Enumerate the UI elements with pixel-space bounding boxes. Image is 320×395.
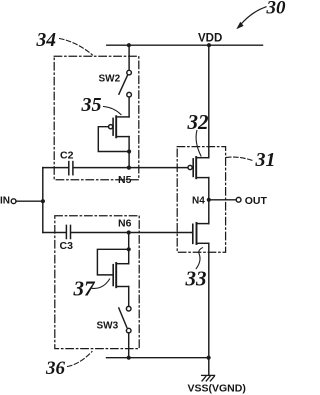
OUT terminal (236, 197, 241, 202)
wire N6 to transistor 37 drain (128, 233, 130, 264)
svg-text:VDD: VDD (198, 33, 222, 45)
svg-text:30: 30 (266, 0, 287, 19)
svg-text:33: 33 (185, 266, 207, 290)
wire SW2 to transistor 35 drain (128, 97, 130, 117)
wire C3 to N6 and gate of 33 (71, 232, 192, 234)
svg-text:31: 31 (255, 149, 276, 171)
ground symbol (202, 375, 215, 381)
power rail VDD wire (107, 44, 263, 46)
svg-text:N6: N6 (118, 218, 132, 230)
switch SW2 (119, 70, 132, 97)
leader line to 34 (60, 39, 93, 56)
box 34 dash-dot (54, 56, 139, 179)
node N6 junction dot (127, 230, 131, 234)
junction dot: gate tie of 37 (127, 247, 131, 251)
wire VDD rail to SW2 (128, 45, 130, 70)
node N5 junction dot (127, 166, 131, 170)
wire 32 drain to N4 (208, 178, 210, 200)
transistor 35 (109, 116, 130, 137)
leader line to 31 (227, 157, 254, 161)
box 31 dash-dot (177, 147, 225, 253)
junction dot: SW3 on VSS rail (127, 356, 131, 360)
transistor 33 (193, 223, 209, 244)
svg-text:32: 32 (187, 110, 210, 134)
switch SW3 (119, 306, 131, 333)
junction dot: VSS column (207, 356, 211, 360)
wire SW3 to VSS rail (128, 333, 130, 358)
wire 37 source to SW3 (128, 287, 130, 307)
wire IN terminal to branch (16, 200, 43, 202)
svg-text:C3: C3 (60, 240, 74, 252)
capacitor C2 (69, 162, 73, 175)
svg-text:SW3: SW3 (97, 321, 119, 332)
wire N4 to transistor 33 drain (208, 200, 210, 224)
transistor 37 (113, 263, 129, 287)
leader line to 35 (104, 107, 122, 115)
wire N6 gate stub into 33 (191, 232, 194, 234)
junction dot: inverter branch on VDD rail (207, 43, 211, 47)
transistor 32 (188, 157, 209, 178)
wire IN branch vertical (42, 168, 44, 233)
wire branch to C3 (43, 232, 66, 234)
leader arrow to 30 (236, 7, 266, 29)
wire VDD to transistor 32 source (208, 45, 210, 158)
svg-text:IN: IN (0, 196, 10, 207)
svg-text:C2: C2 (60, 149, 74, 161)
junction dot: gate tie of 35 (127, 149, 131, 153)
svg-text:N5: N5 (118, 174, 132, 186)
svg-text:36: 36 (45, 358, 66, 379)
leader line to 32 (196, 131, 201, 157)
node N4 junction dot (207, 198, 211, 202)
svg-text:OUT: OUT (245, 195, 268, 207)
VSS rail wire (107, 357, 209, 359)
svg-text:SW2: SW2 (99, 74, 121, 85)
wire N4 to OUT (209, 199, 236, 201)
wire C2 to N5 and gate of 32 (74, 167, 188, 169)
svg-text:35: 35 (81, 94, 102, 116)
leader line to 37 (92, 279, 110, 288)
svg-text:VSS(VGND): VSS(VGND) (188, 382, 246, 394)
wire: gate of 37 tied to drain node (97, 249, 128, 275)
svg-text:N4: N4 (192, 196, 205, 207)
leader line to 33 (196, 248, 202, 269)
IN terminal (11, 199, 16, 204)
wire branch to C2 (43, 167, 68, 169)
junction dot: IN branch (41, 199, 45, 203)
capacitor C3 (66, 225, 70, 238)
junction dot: SW2 branch on VDD rail (127, 43, 131, 47)
box 36 dash-dot (55, 216, 139, 349)
wire 33 source to VSS ground (208, 243, 210, 374)
leader line to 36 (68, 352, 93, 367)
wire 35 source to node N5 (128, 137, 130, 168)
wire: gate of 35 tied to source node (98, 127, 129, 152)
svg-text:34: 34 (36, 30, 57, 51)
